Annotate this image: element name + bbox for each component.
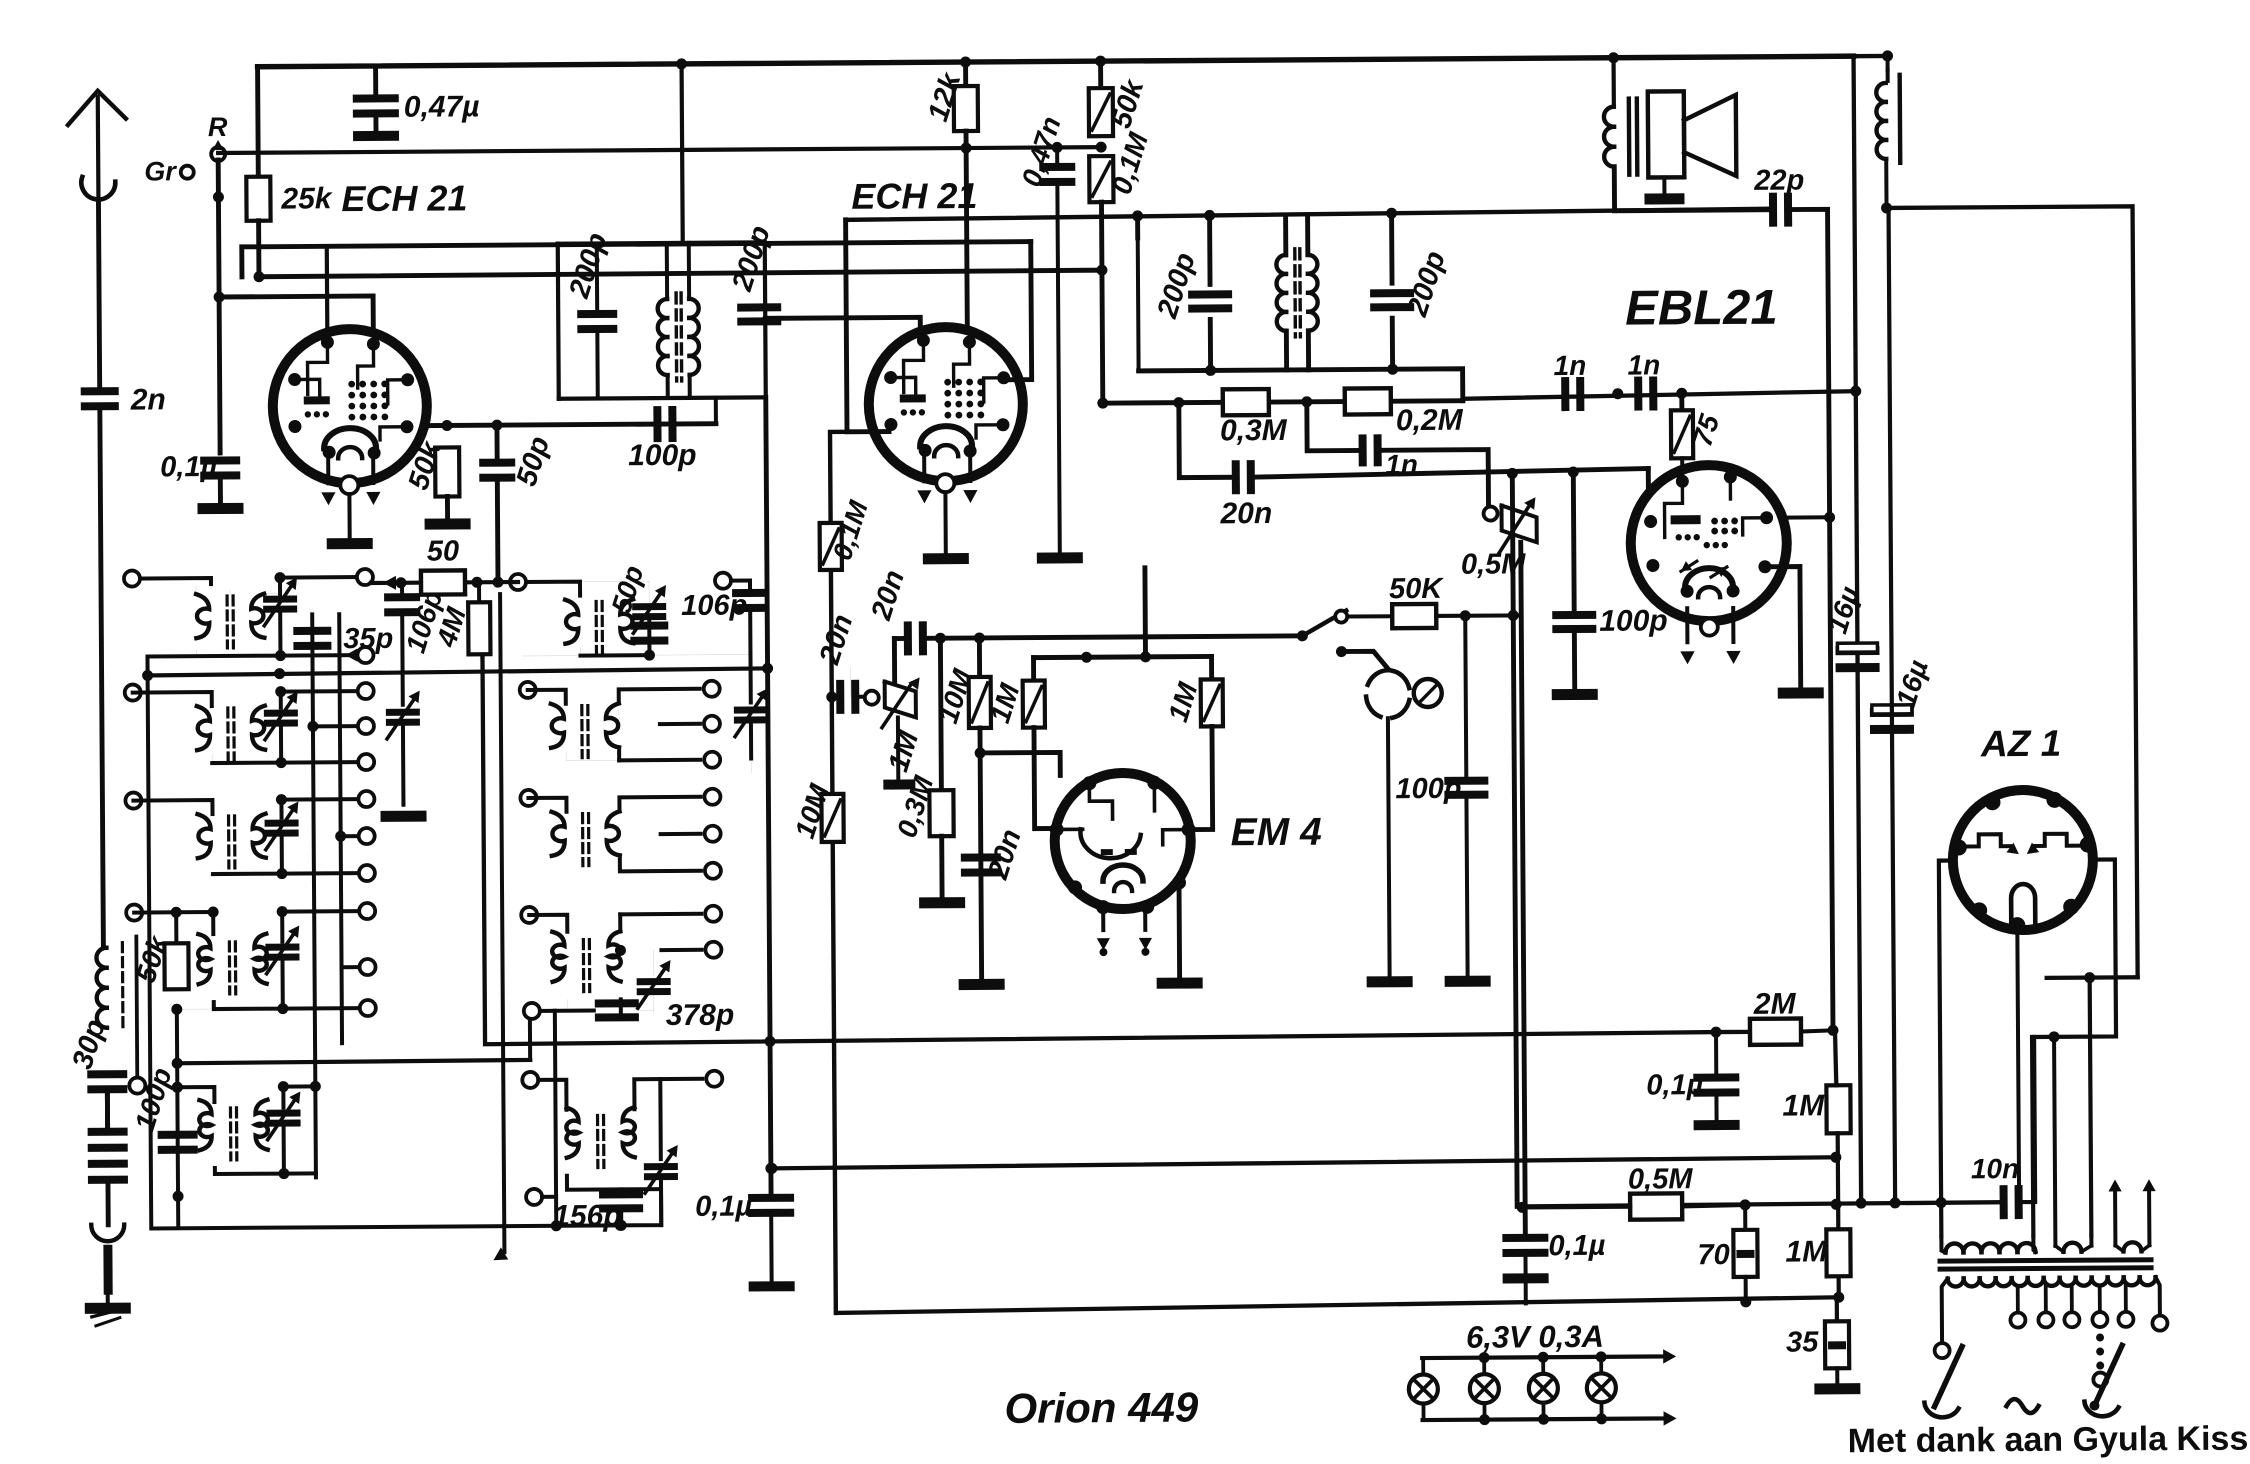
svg-text:2n: 2n bbox=[130, 383, 166, 416]
ebl heater arrow right bbox=[1726, 608, 1741, 664]
wire 0,5M--10n row bbox=[1522, 1197, 2003, 1212]
wire y315 grid2 bbox=[765, 317, 920, 354]
wire rail 1892 bbox=[1889, 208, 1896, 1203]
svg-text:0,1µ: 0,1µ bbox=[1646, 1069, 1704, 1101]
svg-text:50K: 50K bbox=[1389, 573, 1444, 605]
terminal R bbox=[208, 112, 228, 161]
resistor 75 bbox=[1671, 393, 1726, 458]
resistor 25k bbox=[246, 66, 333, 221]
wire rail x768 down bbox=[766, 397, 771, 1198]
ground em4 bbox=[1157, 977, 1203, 988]
IF2 coil bottom leads bbox=[1286, 331, 1308, 370]
tuned circuit M2 bbox=[520, 681, 721, 769]
capacitor 100p IF1 bbox=[628, 398, 716, 473]
wire bbox=[1466, 799, 1467, 976]
wire 10n right bbox=[2019, 1037, 2035, 1202]
svg-text:6,3V 0,3A: 6,3V 0,3A bbox=[1466, 1319, 1604, 1355]
earth hook bbox=[91, 1225, 124, 1295]
wire 1n to pot bbox=[1379, 450, 1488, 505]
wire x1146 bbox=[1142, 568, 1147, 657]
resistor 12k bbox=[922, 56, 978, 131]
wire 1n bus bbox=[1463, 391, 1856, 399]
wire bbox=[939, 836, 944, 897]
junction bbox=[765, 1036, 776, 1047]
label 30p bbox=[66, 1015, 112, 1073]
mains secondary bbox=[1942, 1277, 2160, 1344]
wire 22p right bbox=[1790, 209, 1833, 1030]
junction right frame bbox=[2084, 972, 2095, 983]
tuned circuit M3 bbox=[520, 789, 721, 880]
resistor 50k IF bbox=[1089, 55, 1152, 136]
resistor 10M agc bbox=[789, 780, 844, 843]
svg-text:20n: 20n bbox=[1219, 497, 1272, 530]
wire em4 top row bbox=[1033, 651, 1211, 663]
ebl top lead bbox=[1680, 458, 1684, 476]
svg-text:0,1µ: 0,1µ bbox=[1548, 1230, 1606, 1262]
resistor 1M r1 bbox=[1782, 1030, 1851, 1133]
ground 50k bbox=[425, 518, 471, 529]
resistor 50 bbox=[421, 535, 465, 594]
tube1 heater arrow left bbox=[321, 455, 336, 505]
junction bbox=[441, 420, 452, 431]
wire bbox=[495, 480, 501, 582]
resistor 50k af bbox=[1350, 572, 1521, 628]
svg-text:1M: 1M bbox=[1785, 1235, 1828, 1268]
svg-text:50: 50 bbox=[427, 535, 459, 567]
mains switch left bbox=[1924, 1346, 1962, 1417]
tube1 cathode stem bbox=[347, 494, 351, 538]
wire pot rail bbox=[1521, 542, 1526, 1235]
wire jack gnd bbox=[1388, 718, 1390, 976]
wire coil top bbox=[1854, 54, 1888, 59]
svg-text:0,3M: 0,3M bbox=[1220, 414, 1288, 447]
ground 100p ebl bbox=[1552, 689, 1598, 700]
pilot lamp 1 bbox=[1409, 1358, 1438, 1420]
speaker bbox=[1648, 91, 1737, 178]
ground antenna bbox=[85, 1295, 131, 1326]
wire top HT bus bbox=[258, 56, 1854, 67]
junction bbox=[1097, 396, 1312, 408]
pot 0,5M bbox=[1460, 497, 1537, 581]
wire speaker down bbox=[1614, 166, 1771, 211]
wire tuner out bbox=[750, 758, 752, 772]
label ECH 21 second bbox=[851, 175, 977, 217]
L1 varcap bbox=[263, 572, 298, 661]
capacitor 30p bbox=[87, 1070, 127, 1093]
tube2 base circle bbox=[936, 474, 954, 492]
junction bbox=[1507, 466, 1579, 478]
label Orion 449 bbox=[1004, 1384, 1199, 1432]
capacitor 200p IF1-left bbox=[563, 229, 618, 399]
wire rail 1833 bbox=[1828, 209, 1839, 1321]
svg-text:ECH 21: ECH 21 bbox=[851, 175, 977, 217]
label credit bbox=[1848, 1420, 2249, 1461]
wire mid row2 bbox=[522, 654, 750, 656]
pilot lamp 2 bbox=[1470, 1358, 1499, 1420]
wire bus R bbox=[218, 147, 1101, 153]
capacitor 22p bbox=[1753, 164, 1804, 226]
junction bbox=[1386, 208, 1397, 219]
label EBL21 bbox=[1625, 281, 1778, 336]
wire 25k to grid rail bbox=[256, 221, 261, 277]
wire 12k to tube bbox=[961, 131, 973, 333]
capacitor 2n bbox=[81, 383, 166, 417]
wire tube2 right drop bbox=[1005, 242, 1032, 380]
wire row2 mid bbox=[340, 670, 523, 671]
svg-text:EBL21: EBL21 bbox=[1625, 281, 1778, 336]
pot 1M volume bbox=[865, 677, 926, 776]
wire vol row bbox=[894, 636, 1302, 639]
svg-text:EM 4: EM 4 bbox=[1231, 811, 1323, 855]
speaker ground bbox=[1644, 177, 1684, 204]
IF2 coils bbox=[1276, 249, 1318, 337]
ground em4 left bbox=[959, 979, 1005, 990]
antenna bbox=[68, 91, 127, 203]
resistor 50k screen bbox=[402, 436, 459, 497]
wire az1 right bbox=[2031, 859, 2117, 1236]
capacitor 20n det bbox=[1219, 460, 1272, 530]
wire IF2 bottom bbox=[1138, 236, 1463, 403]
AC symbol bbox=[2006, 1399, 2038, 1413]
label 6,3V 0,3A bbox=[1466, 1319, 1604, 1355]
IF transformer 2 left leads bbox=[1138, 215, 1211, 370]
junction 50k 0,1M bbox=[1096, 142, 1107, 153]
label EM 4 bbox=[1231, 811, 1323, 855]
wire y290 bbox=[214, 290, 374, 339]
resistor 10M em4 bbox=[932, 638, 991, 728]
ground 0,1u bbox=[197, 503, 243, 514]
tube2 heater arrow left bbox=[917, 453, 932, 503]
capacitor 106p L bbox=[384, 582, 449, 704]
tuned circuit L3 bbox=[125, 791, 375, 883]
capacitor antenna series bbox=[87, 1093, 127, 1152]
wire IF2 right lead bbox=[1392, 214, 1393, 369]
capacitor 100p tuner bbox=[128, 1064, 197, 1154]
svg-text:156p: 156p bbox=[553, 1199, 622, 1232]
svg-text:0,5M: 0,5M bbox=[1628, 1163, 1694, 1195]
svg-text:0,47µ: 0,47µ bbox=[404, 90, 480, 124]
varcap M5 bbox=[644, 1145, 679, 1225]
capacitor 200p IF2-left bbox=[1151, 249, 1233, 323]
junction bbox=[1881, 202, 1892, 213]
svg-text:0,1µ: 0,1µ bbox=[695, 1190, 753, 1222]
svg-text:ECH 21: ECH 21 bbox=[341, 177, 467, 219]
capacitor 20n vol bbox=[865, 566, 927, 656]
capacitor 16u #2 bbox=[1870, 656, 1935, 734]
svg-text:100p: 100p bbox=[1599, 604, 1668, 637]
wire det row bbox=[1103, 401, 1463, 403]
secondary terminal left bbox=[1935, 1343, 1950, 1358]
tube EM4 bbox=[1049, 773, 1196, 915]
end bar pot bbox=[883, 779, 915, 789]
wire row1 bbox=[371, 575, 518, 590]
varcap 106p L bbox=[386, 691, 421, 805]
ground 35 bbox=[1814, 1383, 1860, 1394]
wire rail 1514 bbox=[1512, 473, 1517, 1206]
capacitor 0,47n bbox=[1015, 112, 1075, 190]
svg-text:10n: 10n bbox=[1971, 1153, 2019, 1184]
ground jack bbox=[1367, 976, 1413, 987]
svg-text:1M: 1M bbox=[1782, 1089, 1825, 1122]
wire bbox=[1572, 633, 1577, 689]
ebl cathode wire bbox=[1765, 567, 1801, 688]
wire bbox=[1693, 1096, 1739, 1130]
wire 1M L to tube bbox=[1034, 727, 1057, 828]
svg-text:35p: 35p bbox=[343, 623, 393, 655]
wire 20n row bbox=[1179, 402, 1234, 477]
ground 0,3M bbox=[919, 897, 965, 908]
resistor 1M em4 R bbox=[1162, 656, 1223, 726]
junction bbox=[1612, 388, 1687, 399]
ground tube2 bbox=[923, 553, 969, 564]
transformer core bbox=[1938, 1257, 2154, 1271]
ground screen2 bbox=[1037, 552, 1083, 563]
em4 pin arrow left bbox=[1097, 908, 1111, 956]
ground varcap L bbox=[381, 811, 427, 822]
resistor 4M bbox=[430, 582, 491, 670]
mains winding 3 arrows bbox=[2108, 1179, 2156, 1251]
label 106p mid bbox=[681, 590, 747, 622]
tuned circuit M1 bbox=[565, 581, 667, 661]
lamp bus bottom bbox=[1423, 1411, 1677, 1427]
ebl heater arrow left bbox=[1680, 608, 1695, 664]
wire tube2 left box bbox=[846, 220, 889, 432]
capacitor 10n bbox=[1971, 1153, 2023, 1219]
wire R down bbox=[213, 160, 226, 453]
wire bbox=[106, 1183, 111, 1225]
pilot lamp 4 bbox=[1587, 1357, 1616, 1419]
wire 50p drop bbox=[495, 425, 500, 460]
antenna coil 30p section bbox=[96, 937, 145, 1094]
label ECH 21 first bbox=[341, 177, 467, 219]
speaker output transformer bbox=[1604, 99, 1638, 175]
IF2 coil top leads bbox=[1286, 215, 1308, 255]
wire bbox=[105, 1093, 110, 1129]
capacitor 100p ebl bbox=[1551, 471, 1667, 638]
capacitor 0,1u b bbox=[1502, 1230, 1606, 1263]
capacitor 378p bbox=[524, 999, 735, 1033]
junction bbox=[1710, 1027, 1721, 1038]
resistor 0,5M bbox=[1522, 1163, 1745, 1220]
varcap mid bbox=[734, 688, 768, 758]
wire IF1 top to bus bbox=[676, 58, 688, 243]
em4 pin arrow right bbox=[1139, 908, 1153, 956]
wire 1n drop bbox=[1307, 401, 1361, 450]
capacitor 50p M1 bbox=[605, 561, 668, 645]
tuned circuit L1 bbox=[124, 570, 280, 649]
jack bbox=[1366, 670, 1442, 718]
svg-text:35: 35 bbox=[1786, 1326, 1819, 1358]
wire x851 link bbox=[850, 668, 852, 697]
capacitor 156p bbox=[553, 1189, 643, 1233]
wire top right frame bbox=[1887, 206, 2138, 979]
resistor 70 bbox=[1697, 1205, 1757, 1277]
capacitor 20n agc bbox=[813, 610, 860, 714]
capacitor 0,1u af1 bbox=[1646, 1032, 1739, 1102]
label AZ1 bbox=[1980, 723, 2061, 765]
capacitor 1n #2 bbox=[1627, 349, 1660, 410]
wire 20n right bbox=[1252, 469, 1648, 478]
wire jack feed bbox=[1336, 646, 1388, 669]
HT choke bbox=[1876, 50, 1901, 208]
wire tuner rail x313 bbox=[312, 614, 316, 1177]
capacitor 20n em4 bbox=[961, 825, 1028, 884]
capacitor 100p af bbox=[1394, 616, 1488, 806]
wire y271 bbox=[253, 266, 1102, 283]
wire rail x832 bbox=[830, 432, 895, 1313]
tube AZ1 bbox=[1950, 790, 2096, 934]
capacitor 16u #1 bbox=[1821, 582, 1879, 672]
capacitor 0,1u grid bbox=[160, 451, 240, 484]
svg-text:R: R bbox=[208, 112, 228, 142]
wire 984 row bbox=[2047, 975, 2138, 980]
wire mixer grid column bbox=[489, 594, 508, 1260]
wire az1 bottom pin bbox=[2017, 925, 2019, 1199]
resistor 2M bbox=[1750, 988, 1801, 1045]
tube1 base circle bbox=[340, 476, 358, 494]
ebl base circle bbox=[1701, 619, 1718, 636]
svg-text:22p: 22p bbox=[1753, 164, 1804, 196]
wire 378p column bbox=[549, 1011, 561, 1232]
wire bus B3 bbox=[837, 1292, 1845, 1314]
IF transformer 1 box bbox=[558, 242, 766, 398]
wire plate1 bbox=[425, 424, 716, 426]
wire tuner bus row1 bbox=[142, 663, 773, 681]
wire bbox=[748, 1214, 795, 1291]
svg-text:Orion 449: Orion 449 bbox=[1004, 1384, 1199, 1432]
wire agc cap bbox=[826, 691, 864, 702]
ground ebl cathode bbox=[1778, 687, 1824, 698]
wire af row bbox=[1646, 469, 1651, 489]
wire 50k-L column bbox=[171, 1009, 183, 1226]
capacitor 106p r bbox=[750, 667, 752, 669]
IF1 coils bbox=[657, 243, 699, 398]
wire bbox=[218, 477, 223, 503]
tuned circuit M4 bbox=[521, 906, 722, 1014]
resistor 0,1M avc bbox=[819, 497, 874, 570]
mains switch right bbox=[2084, 1345, 2122, 1416]
wire 2M right bbox=[1801, 1025, 1839, 1036]
resistor 0,1M bbox=[1089, 128, 1155, 202]
capacitor 200p IF2-right bbox=[1370, 247, 1453, 321]
wire y240 bbox=[242, 242, 1031, 277]
secondary taps bbox=[2010, 1285, 2167, 1332]
capacitor 1n det bbox=[1359, 434, 1418, 480]
resistor 0,3M em4 bbox=[890, 638, 954, 841]
tap dots bbox=[2093, 1334, 2107, 1387]
wire bus B2 bbox=[766, 1152, 1841, 1174]
svg-text:1n: 1n bbox=[1553, 350, 1586, 381]
wire bus 216 bbox=[846, 209, 1772, 220]
ground tube1 bbox=[327, 538, 373, 549]
wire rail 1858 bbox=[1848, 56, 1867, 1203]
svg-text:0,1µ: 0,1µ bbox=[160, 451, 218, 483]
wire M4 link bbox=[554, 1011, 556, 1044]
wire grid em4 bbox=[980, 752, 1060, 776]
em4 cathode gnd bbox=[1177, 884, 1183, 978]
wire bbox=[1744, 1277, 1748, 1302]
wire bus B1 bbox=[482, 646, 1750, 1044]
wire x2088 down bbox=[2090, 978, 2092, 1236]
wire 0,1M down bbox=[1096, 202, 1108, 403]
tube ECH21 #2 bbox=[868, 327, 1023, 482]
tube ECH21 #1 bbox=[272, 329, 427, 484]
resistor 50k tuner bbox=[126, 904, 189, 989]
tuned circuit L5 bbox=[172, 1081, 322, 1180]
wire grid lead tube1 bbox=[325, 246, 330, 339]
coil HT filter bbox=[1876, 55, 1888, 57]
wire switch feed bbox=[1144, 567, 1146, 569]
capacitor 0,1u tuner bbox=[695, 1163, 794, 1223]
junction bbox=[1204, 210, 1215, 221]
wire bbox=[1835, 1368, 1839, 1383]
terminal Gr bbox=[144, 156, 194, 186]
switch lever bbox=[1297, 611, 1348, 642]
terminal M5 left bbox=[526, 1189, 556, 1205]
wire 0,5M row bbox=[1517, 1202, 1528, 1213]
capacitor 35p bbox=[293, 623, 393, 656]
wire bbox=[445, 496, 450, 518]
svg-text:0,5M: 0,5M bbox=[1461, 548, 1527, 580]
resistor 1M em4 L bbox=[984, 658, 1045, 728]
wire 0,47n ground leg bbox=[1057, 147, 1060, 552]
capacitor 106p mid bbox=[715, 572, 769, 702]
wire pot down bbox=[896, 718, 900, 780]
junction bbox=[935, 632, 985, 643]
wire tuner mid feeds bbox=[510, 574, 580, 596]
wire bbox=[1502, 1256, 1548, 1303]
wire 10M down bbox=[974, 728, 987, 979]
wire antenna lead-in bbox=[98, 203, 99, 387]
svg-text:Gr: Gr bbox=[144, 156, 177, 186]
ebl plate lead bbox=[1785, 512, 1836, 523]
wire 1M R to tube bbox=[1190, 726, 1213, 829]
resistor 35 bbox=[1786, 1321, 1849, 1368]
wire vol drop bbox=[892, 639, 897, 682]
lamp bus top bbox=[1422, 1349, 1676, 1365]
mains winding 2 bbox=[2049, 1031, 2092, 1252]
svg-text:2M: 2M bbox=[1753, 988, 1797, 1021]
svg-text:0,2M: 0,2M bbox=[1396, 404, 1464, 437]
svg-text:70: 70 bbox=[1697, 1239, 1729, 1271]
tube EBL21 bbox=[1630, 465, 1787, 622]
svg-text:100p: 100p bbox=[1395, 773, 1461, 805]
wire bus AVC bbox=[175, 1018, 530, 1063]
wire speaker top bbox=[1608, 52, 1619, 105]
mains transformer primary bbox=[1941, 1236, 2035, 1253]
tuned circuit L4 bbox=[171, 903, 376, 1017]
pilot lamp 3 bbox=[1529, 1357, 1558, 1419]
wire az1 left bbox=[1933, 861, 1955, 1237]
capacitor 0,47u bbox=[353, 65, 480, 141]
ground 100p af bbox=[1445, 976, 1491, 987]
resistor 0,3M bbox=[1220, 389, 1288, 447]
wire tuner left rail bbox=[147, 653, 661, 1234]
svg-text:AZ 1: AZ 1 bbox=[1980, 723, 2061, 765]
capacitor 1n #1 bbox=[1553, 350, 1586, 411]
svg-text:378p: 378p bbox=[666, 999, 735, 1032]
tuned circuit M5 bbox=[522, 1071, 723, 1190]
L1 wires bbox=[147, 569, 374, 664]
wire tuner rail x340 bbox=[339, 614, 342, 1043]
tube2 heater arrow right bbox=[963, 453, 978, 503]
svg-text:100p: 100p bbox=[628, 439, 697, 472]
resistor 0,2M bbox=[1345, 388, 1464, 438]
tube2 cathode stem bbox=[943, 492, 947, 553]
svg-text:25k: 25k bbox=[280, 182, 333, 215]
svg-text:Met dank aan Gyula Kiss: Met dank aan Gyula Kiss bbox=[1848, 1420, 2249, 1461]
capacitor 200p IF1-right bbox=[726, 222, 782, 326]
